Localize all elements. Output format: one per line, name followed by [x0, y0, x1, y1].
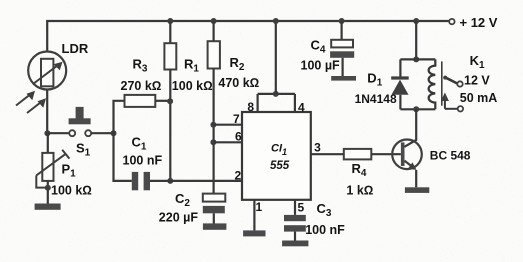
- node rail R2: [211, 18, 217, 24]
- svg-text:50 mA: 50 mA: [460, 91, 498, 105]
- relay actuator arrow: [441, 93, 458, 109]
- node C1/R1/pin2 junction: [167, 178, 173, 184]
- svg-text:470 kΩ: 470 kΩ: [218, 76, 259, 90]
- node R3/R1 junction: [167, 98, 173, 104]
- resistor R4: [344, 149, 372, 160]
- LDR light arrow 2: [27, 98, 46, 113]
- wire pin 7: [213, 124, 242, 126]
- relay contact bottom: [458, 106, 463, 111]
- relay contact top: [457, 81, 462, 86]
- node relay top: [413, 56, 419, 62]
- svg-text:100 kΩ: 100 kΩ: [51, 184, 92, 198]
- LDR: [28, 52, 66, 90]
- svg-text:5: 5: [298, 201, 305, 215]
- svg-text:220 µF: 220 µF: [159, 211, 199, 225]
- svg-text:100 kΩ: 100 kΩ: [172, 79, 213, 93]
- node S1/R3/C1 junction: [111, 130, 117, 136]
- relay core bar: [441, 61, 443, 105]
- svg-text:7: 7: [233, 112, 240, 126]
- svg-text:2: 2: [235, 168, 242, 182]
- wire node up to R3: [114, 101, 125, 133]
- wire loop to rail: [275, 21, 277, 94]
- svg-text:1 kΩ: 1 kΩ: [346, 184, 373, 198]
- node loop/rail wire: [273, 91, 279, 97]
- node R2/pin7: [210, 122, 216, 128]
- svg-text:270 kΩ: 270 kΩ: [121, 79, 162, 93]
- op IC CI1 555: [242, 112, 311, 200]
- wire node to S1: [47, 132, 69, 134]
- svg-text:555: 555: [270, 160, 290, 172]
- wire pin3 to R4: [311, 153, 344, 155]
- relay K1 coil: [429, 59, 436, 109]
- wire emitter to ground: [415, 170, 417, 187]
- ground emitter: [405, 187, 429, 193]
- switch S1: [69, 107, 92, 136]
- wire pin1 to ground: [253, 200, 255, 231]
- wire S1 to node: [91, 132, 113, 134]
- diode D1: [391, 59, 409, 109]
- ground pin1: [243, 230, 265, 236]
- svg-text:3: 3: [314, 140, 321, 154]
- svg-text:100 µF: 100 µF: [301, 59, 341, 73]
- svg-text:+ 12 V: + 12 V: [460, 15, 498, 30]
- wire pin 2: [170, 180, 242, 182]
- svg-text:6: 6: [235, 130, 242, 144]
- transistor Q1 BC548: [392, 140, 422, 170]
- svg-text:4: 4: [298, 100, 305, 114]
- ground C4: [331, 76, 356, 81]
- svg-text:LDR: LDR: [62, 41, 89, 56]
- svg-text:12 V: 12 V: [464, 73, 490, 87]
- wire relay bottom rung: [400, 108, 435, 110]
- resistor R2: [208, 21, 220, 194]
- node LDR/S1/P1 junction: [44, 130, 50, 136]
- wire LDR to node: [46, 90, 48, 134]
- wire pin8 stub: [257, 94, 259, 112]
- svg-text:100 nF: 100 nF: [123, 154, 163, 168]
- resistor R1: [164, 21, 176, 181]
- relay switch blade: [443, 76, 457, 84]
- wire pin 6: [213, 141, 242, 143]
- wire R4 to base: [371, 153, 401, 155]
- wire +12V top rail: [47, 21, 449, 52]
- svg-text:1N4148: 1N4148: [355, 92, 397, 106]
- resistor R3: [125, 95, 156, 107]
- LDR light arrow 1: [16, 91, 35, 106]
- potentiometer P1: [36, 133, 69, 204]
- capacitor C3: [284, 200, 306, 241]
- wire pin4 stub: [294, 94, 296, 112]
- svg-text:1: 1: [256, 200, 263, 214]
- node relay bottom: [413, 106, 419, 112]
- node rail relay branch: [413, 18, 419, 24]
- wire pin8-pin4 loop: [258, 93, 295, 95]
- svg-text:100 nF: 100 nF: [305, 223, 345, 237]
- node rail 555: [273, 18, 279, 24]
- node rail R1: [167, 18, 173, 24]
- capacitor C4: [330, 21, 354, 76]
- ground C3: [282, 241, 308, 247]
- wire rail to relay top: [415, 21, 417, 59]
- ground C2: [203, 223, 227, 229]
- node rail C4: [339, 18, 345, 24]
- svg-text:BC 548: BC 548: [430, 149, 471, 163]
- wire R3 to node: [155, 100, 170, 102]
- terminal +12V: [449, 19, 454, 24]
- node R2/pin6: [210, 139, 216, 145]
- wire collector: [404, 109, 416, 147]
- capacitor C2: [203, 194, 226, 224]
- ground P1: [35, 204, 61, 210]
- wire relay top rung: [400, 58, 435, 60]
- svg-text:8: 8: [247, 100, 254, 114]
- capacitor C1: [114, 133, 171, 190]
